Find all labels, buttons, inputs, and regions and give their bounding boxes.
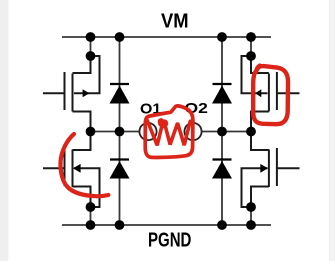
wire: left mosfet branch bottom — [90, 207, 92, 225]
Q3 channel bar — [268, 74, 270, 112]
junction: O2 node / D3 — [217, 127, 227, 137]
wire: left diode branch upper — [119, 37, 121, 132]
red mark: oval tail top-left — [256, 65, 260, 72]
red mark: scribble zigzag — [147, 120, 190, 145]
Q3 body arrow (points left) — [255, 89, 261, 97]
Q2 body connection — [74, 168, 100, 207]
transistor Q2 low-side left — [43, 132, 100, 208]
Q4 source lead — [251, 187, 269, 208]
Q4 drain lead — [251, 132, 269, 151]
right faint page edge line — [328, 0, 331, 261]
Q1 channel bar — [72, 74, 74, 112]
wire: right mosfet branch top — [250, 37, 252, 56]
diode D2 low-side left — [110, 160, 130, 179]
Q2 source lead — [73, 187, 91, 208]
junction: O1 node / Q1 — [86, 127, 96, 137]
Q3 drain lead — [251, 56, 269, 73]
Q1 source lead — [73, 112, 91, 132]
Q3 body connection — [242, 56, 268, 93]
wire: right mosfet branch bottom — [250, 207, 252, 225]
wire: right diode branch upper — [221, 37, 223, 132]
Q4 body arrow (points right) — [260, 164, 268, 173]
diode D4 low-side right — [212, 160, 232, 179]
red mark: oval around high-side right mosfet — [253, 66, 288, 124]
transistor Q1 high-side left — [43, 56, 100, 132]
transistor Q4 low-side right — [242, 132, 300, 208]
Q3 gate lead — [277, 92, 300, 94]
Q2 drain lead — [73, 132, 91, 151]
wire: left diode branch lower — [119, 132, 121, 226]
Q1 gate bar — [64, 72, 66, 110]
Q4 gate lead — [277, 167, 300, 169]
right gray page band — [330, 0, 335, 261]
terminal O2 circle — [184, 123, 201, 140]
junction: bottom rail / Q2 — [86, 220, 96, 230]
red annotations — [60, 65, 288, 196]
wire: VM top rail — [62, 36, 271, 38]
left gray page band — [0, 0, 8, 261]
junction: top rail / Q3 — [246, 32, 256, 42]
Q1 gate lead — [43, 92, 65, 94]
svg-text:PGND: PGND — [148, 229, 191, 252]
diode D3 high-side right — [212, 84, 232, 104]
Q1 body connection — [74, 56, 100, 93]
junction: top rail / D3 — [217, 32, 227, 42]
svg-text:VM: VM — [161, 10, 189, 33]
wire: PGND bottom rail — [62, 224, 271, 226]
red mark: scribble loop around O1 O2 — [145, 106, 193, 158]
Q4 channel bar — [268, 150, 270, 188]
Q4 gate bar — [276, 148, 278, 186]
junction: Q2 source-body node — [86, 202, 96, 212]
wire: left mosfet branch top — [90, 37, 92, 56]
Q1 drain lead — [73, 56, 91, 73]
junction: bottom rail / D2 — [115, 220, 125, 230]
Q2 channel bar — [72, 150, 74, 188]
Q1 body arrow (points right) — [83, 89, 90, 97]
Q3 gate bar — [276, 72, 278, 110]
junction: bottom rail / Q4 — [246, 220, 256, 230]
junction: O1 node / D1 — [115, 127, 125, 137]
junction: O2 node / Q3 — [246, 127, 256, 137]
junction: Q4 source-body node — [246, 202, 256, 212]
red mark: bracket around low-side left mosfet — [60, 134, 108, 196]
junction: Q3 drain-body node — [246, 51, 256, 61]
transistor Q3 high-side right — [242, 56, 300, 132]
Q2 gate bar — [64, 148, 66, 186]
junction: Q1 drain-body node — [86, 51, 96, 61]
terminal O1 circle — [139, 123, 156, 140]
diode D1 high-side left — [110, 84, 130, 104]
Q2 gate lead — [43, 167, 65, 169]
wire: right diode branch lower — [221, 132, 223, 226]
Q2 body arrow (points left) — [73, 164, 81, 173]
junction: top rail / D1 — [115, 32, 125, 42]
junction: bottom rail / D4 — [217, 220, 227, 230]
wire: output O2 line — [202, 131, 251, 133]
wire: output O1 line — [91, 131, 140, 133]
Q4 body connection — [242, 168, 268, 207]
junction: top rail / Q1 — [86, 32, 96, 42]
Q3 source lead — [251, 112, 269, 132]
